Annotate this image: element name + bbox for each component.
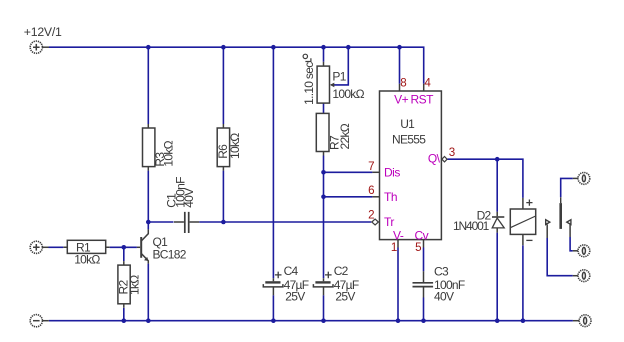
svg-text:V+: V+	[394, 93, 409, 107]
svg-text:C4: C4	[284, 264, 299, 278]
svg-text:10kΩ: 10kΩ	[162, 140, 176, 166]
svg-text:P1: P1	[332, 69, 346, 83]
svg-text:8: 8	[400, 77, 406, 90]
svg-text:10kΩ: 10kΩ	[228, 133, 242, 159]
svg-text:U1: U1	[400, 117, 415, 131]
svg-text:7: 7	[368, 160, 374, 173]
svg-text:2: 2	[368, 208, 374, 221]
svg-text:25V: 25V	[335, 289, 355, 303]
svg-text:100kΩ: 100kΩ	[332, 87, 364, 101]
svg-text:C2: C2	[334, 264, 349, 278]
svg-text:C3: C3	[434, 265, 449, 279]
svg-text:1kΩ: 1kΩ	[128, 275, 142, 295]
svg-text:3: 3	[449, 146, 455, 159]
svg-text:6: 6	[368, 184, 374, 197]
svg-text:NE555: NE555	[392, 133, 426, 147]
svg-text:+12V/1: +12V/1	[24, 25, 62, 39]
svg-text:22kΩ: 22kΩ	[338, 123, 352, 149]
svg-text:4: 4	[424, 77, 431, 90]
svg-text:BC182: BC182	[153, 247, 187, 261]
svg-text:Dis: Dis	[384, 165, 400, 179]
svg-text:10kΩ: 10kΩ	[74, 253, 100, 267]
svg-text:5: 5	[415, 241, 421, 254]
svg-text:40V: 40V	[182, 188, 196, 208]
svg-text:Th: Th	[384, 190, 397, 204]
svg-text:Q\: Q\	[428, 152, 441, 166]
svg-text:25V: 25V	[285, 289, 305, 303]
svg-text:RST: RST	[411, 93, 435, 107]
svg-text:40V: 40V	[434, 290, 454, 304]
svg-text:1N4001: 1N4001	[453, 219, 490, 233]
svg-text:1: 1	[391, 241, 397, 254]
svg-text:Tr: Tr	[384, 215, 394, 229]
svg-text:1..10 sec: 1..10 sec	[302, 62, 316, 105]
